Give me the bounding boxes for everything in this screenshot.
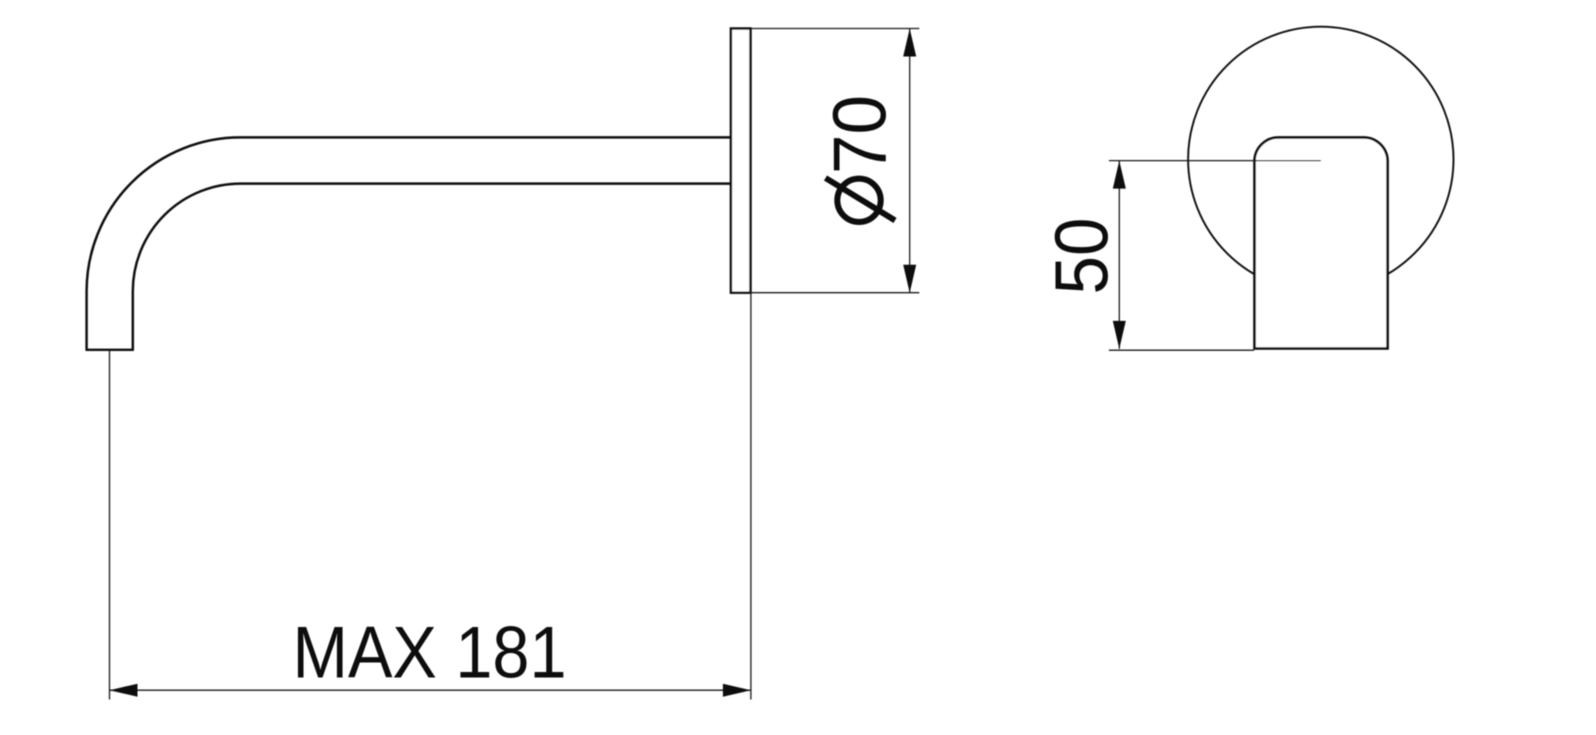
svg-text:50: 50 [1039,218,1123,295]
svg-text:70: 70 [818,95,902,174]
svg-text:MAX 181: MAX 181 [293,611,567,694]
